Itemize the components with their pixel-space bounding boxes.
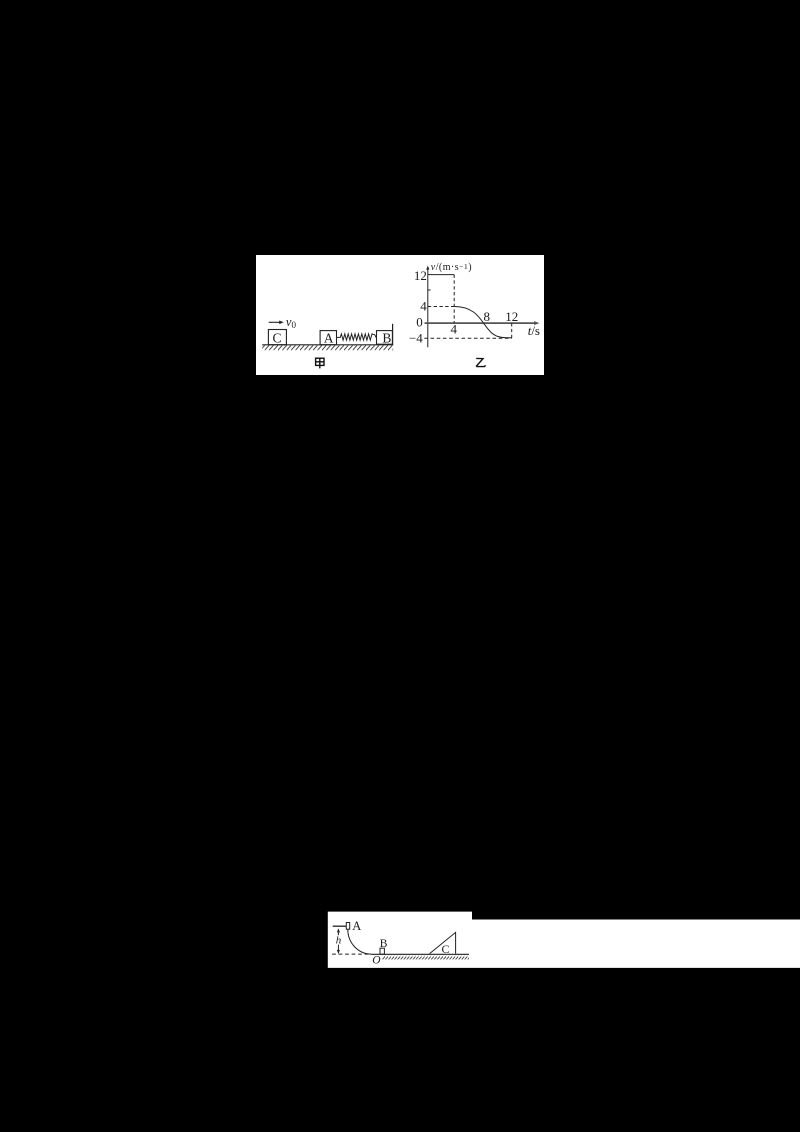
solid ground line	[371, 953, 469, 955]
platform line	[333, 925, 346, 927]
tick v=8	[428, 289, 431, 291]
figure 1 panel (white)	[256, 255, 544, 375]
v0 arrow	[269, 321, 281, 323]
wall	[392, 324, 394, 345]
dashed ground level line	[332, 953, 371, 955]
svg-text:12: 12	[505, 309, 518, 324]
ground hatching	[262, 345, 393, 351]
svg-text:4: 4	[451, 321, 458, 336]
svg-text:B: B	[382, 331, 391, 346]
block B	[377, 331, 393, 345]
svg-text:B: B	[380, 938, 388, 950]
block A (small)	[346, 923, 349, 930]
wedge C triangle	[430, 932, 456, 953]
t axis	[425, 322, 536, 324]
svg-text:8: 8	[484, 309, 491, 324]
block A	[320, 331, 336, 345]
h dimension arrow	[337, 930, 339, 935]
svg-text:C: C	[442, 942, 450, 956]
dashed v=-4 horizontal	[424, 337, 511, 339]
svg-text:A: A	[352, 919, 361, 933]
block C	[268, 330, 286, 345]
curved ramp (quarter arc)	[348, 929, 372, 954]
velocity curve	[454, 307, 512, 338]
svg-text:O: O	[372, 955, 381, 967]
label Jia (first) glyph	[316, 358, 324, 369]
svg-text:4: 4	[420, 299, 427, 314]
svg-text:h: h	[336, 934, 342, 946]
ground line (fig 1 left)	[262, 344, 393, 346]
figure 2 panel (white, stepped outline)	[327, 911, 800, 968]
v axis	[427, 268, 429, 347]
dashed v=4 horizontal	[428, 306, 454, 308]
svg-text:−4: −4	[409, 331, 423, 346]
dashed t=4 vertical	[453, 275, 455, 324]
v=12 solid segment	[428, 274, 454, 276]
svg-text:0: 0	[416, 314, 423, 329]
svg-text:12: 12	[414, 268, 427, 283]
svg-text:A: A	[324, 331, 334, 346]
spring	[337, 334, 377, 340]
svg-text:t/s: t/s	[528, 323, 540, 338]
block B (small)	[380, 948, 384, 954]
svg-text:C: C	[273, 331, 282, 346]
dashed t=12 vertical	[511, 323, 513, 338]
label Yi (second) glyph	[476, 358, 485, 366]
ground hatching	[382, 955, 469, 960]
